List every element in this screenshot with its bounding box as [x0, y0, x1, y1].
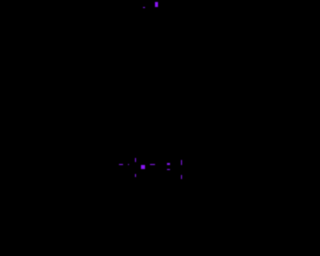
capacitor C2 top plate: [167, 163, 171, 164]
component body U1 (pad): [141, 165, 145, 170]
node A (junction dot): [128, 164, 129, 165]
capacitor C2 bottom plate: [167, 169, 170, 171]
wire segment W0 (top): [143, 7, 146, 9]
capacitor C1 top plate: [135, 158, 136, 162]
capacitor C1 bottom plate: [135, 174, 136, 177]
component pad P0 (top): [155, 2, 158, 7]
wire W2: [150, 164, 155, 165]
capacitor C3 bottom plate: [181, 175, 182, 179]
wire W1: [119, 164, 124, 165]
capacitor C3 top plate: [181, 160, 182, 164]
